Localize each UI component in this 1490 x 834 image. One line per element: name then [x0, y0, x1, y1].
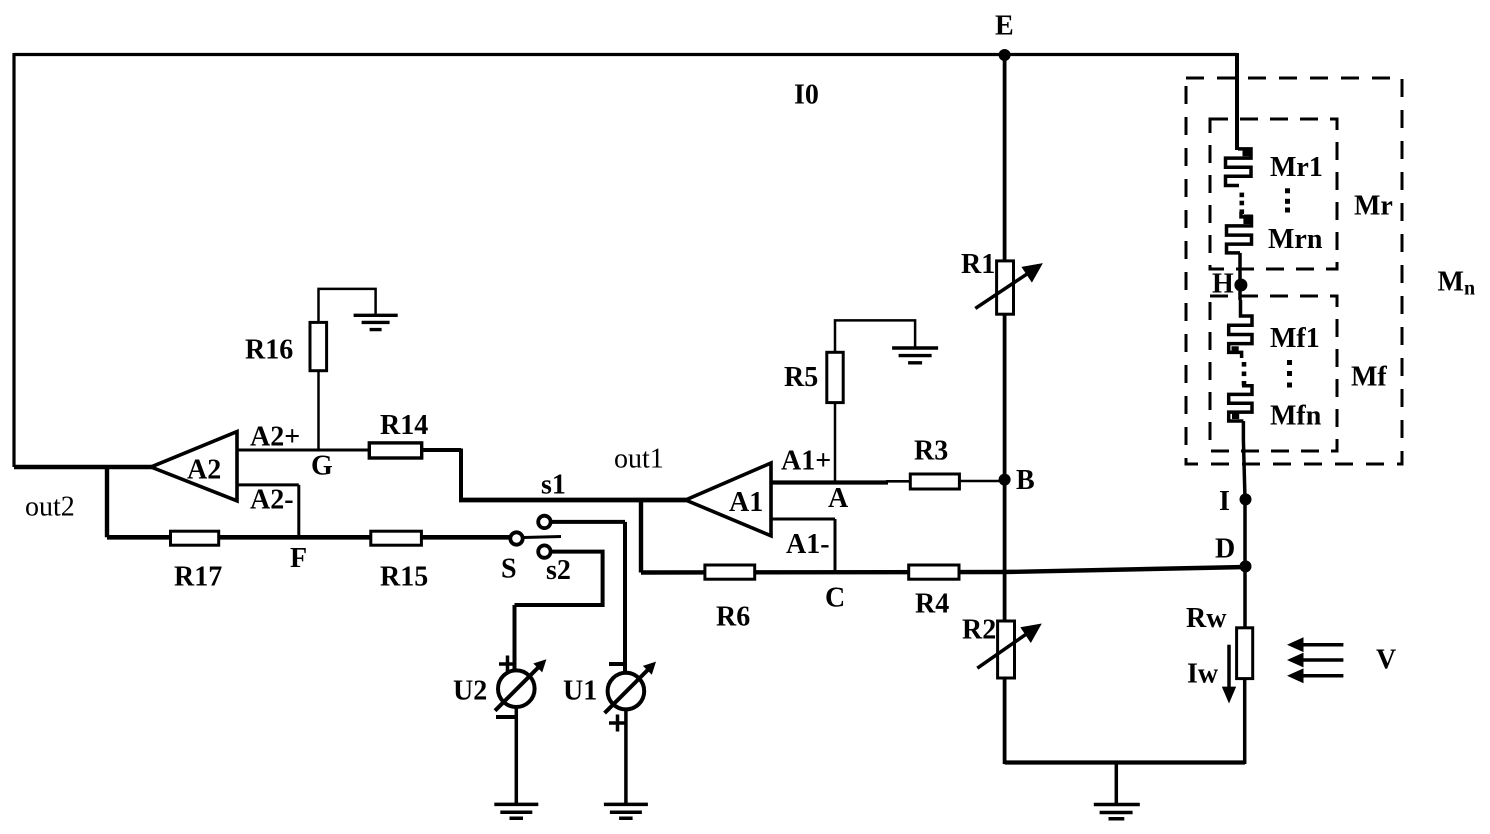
wire A1 output feedback branch down [639, 500, 643, 573]
svg-text:R17: R17 [174, 562, 222, 593]
wire s1 contact to U1 [552, 522, 626, 673]
memristor Mrn [1227, 212, 1323, 255]
resistor R2 (variable) [962, 615, 1042, 679]
svg-text:C: C [825, 583, 845, 614]
dashed box Mf (inner bottom) [1210, 296, 1337, 451]
switch S pole contact [510, 532, 522, 544]
current arrow Iw [1187, 645, 1236, 704]
resistor R16 [245, 322, 327, 370]
wire A2 inverting input stub down to node F [237, 485, 299, 537]
wire Rw bottom lead to bottom rail [1243, 679, 1245, 764]
svg-text:Mrn: Mrn [1268, 224, 1323, 255]
wire E vertical rail down to R1 [1003, 55, 1007, 261]
svg-text:n: n [1464, 278, 1475, 300]
node E [995, 11, 1014, 62]
wire left rail down the left edge [12, 53, 15, 467]
ground (R16) [354, 315, 398, 329]
svg-text:A1-: A1- [786, 529, 830, 560]
svg-text:A1: A1 [729, 487, 763, 518]
svg-text:R2: R2 [962, 615, 996, 646]
svg-text:R16: R16 [245, 335, 293, 366]
dashed box Mr (inner top) [1210, 119, 1337, 269]
wire R14 right lead, corner down to s1 bus [422, 449, 461, 501]
resistor R5 [784, 352, 843, 402]
svg-text:B: B [1016, 465, 1035, 496]
ground (bottom rail) [1094, 763, 1140, 819]
node I [1219, 486, 1252, 517]
wire A1 noninverting input to R3 (node A on it) [771, 481, 911, 482]
dots between Mr1 and Mrn (chain) [1240, 193, 1245, 214]
label Mn [1438, 267, 1476, 300]
svg-text:Mr: Mr [1354, 191, 1393, 222]
resistor R4 [909, 565, 959, 620]
wire A2 noninverting input to R14 (node G on it) [237, 449, 370, 452]
dots between Mf1 and Mfn (chain) [1242, 362, 1247, 386]
label + (U1 bottom) [609, 715, 626, 732]
svg-text:s1: s1 [541, 470, 566, 501]
wire A1 inverting input stub down to node C [771, 519, 835, 572]
svg-text:I: I [1219, 486, 1230, 517]
wire lower line junction down to R2 [1003, 572, 1007, 621]
ground (U2) [494, 804, 538, 818]
svg-text:Mf: Mf [1351, 362, 1387, 393]
svg-text:R1: R1 [961, 249, 995, 280]
svg-text:H: H [1212, 269, 1234, 300]
source U2 (variable) [453, 659, 546, 711]
resistor R17 [171, 531, 223, 592]
svg-text:out2: out2 [25, 492, 75, 523]
svg-text:Iw: Iw [1187, 659, 1219, 690]
svg-text:G: G [311, 451, 333, 482]
svg-text:I0: I0 [794, 80, 819, 111]
dots under label Mf1 [1287, 360, 1292, 388]
svg-text:R15: R15 [380, 562, 428, 593]
dashed box Mn (outer) [1186, 78, 1402, 464]
svg-text:A1+: A1+ [781, 446, 831, 477]
svg-text:R4: R4 [915, 589, 949, 620]
label + (U2 top) [499, 656, 516, 673]
wire R5 bottom lead down to node A [834, 403, 837, 481]
wire R17 / R15 line to switch pole [107, 535, 510, 540]
memristor Mr1 [1226, 148, 1323, 186]
switch throw contact s1 [538, 516, 550, 528]
resistor R3 [910, 436, 959, 490]
svg-text:Mf1: Mf1 [1270, 323, 1320, 354]
wire R2 bottom lead to bottom rail [1003, 678, 1007, 764]
svg-text:E: E [995, 11, 1014, 42]
wire bottom rail [1005, 760, 1245, 764]
svg-text:V: V [1376, 645, 1396, 676]
svg-text:R6: R6 [716, 602, 750, 633]
node D [1215, 534, 1252, 573]
svg-text:M: M [1438, 267, 1464, 298]
light arrows V [1287, 637, 1396, 683]
resistor R15 [371, 531, 428, 592]
switch S blade [524, 537, 562, 538]
wire R5 top lead to ground [835, 320, 915, 352]
svg-text:R14: R14 [380, 410, 428, 441]
wire U1 bottom lead to ground [624, 709, 628, 804]
svg-text:out1: out1 [614, 444, 664, 475]
wire from top rail down into Mr box [1235, 53, 1239, 150]
memristor Mfn [1229, 386, 1322, 432]
svg-text:Mr1: Mr1 [1270, 152, 1323, 183]
svg-text:A2-: A2- [250, 485, 294, 516]
wire R1 bottom to B and on to lower line [1003, 314, 1007, 572]
wire out2 feedback drop to R17 line [105, 467, 109, 537]
resistor R1 (variable) [961, 249, 1043, 314]
wire lower line from feedback branch through R6, C, R4 to node D [641, 567, 1246, 573]
ground (R5) [892, 348, 938, 363]
svg-text:Rw: Rw [1186, 603, 1227, 634]
svg-text:A: A [828, 483, 849, 514]
memristor Mf1 [1229, 300, 1320, 358]
wire s2 contact to U2 [515, 552, 603, 671]
svg-text:S: S [501, 554, 517, 585]
resistor R14 [369, 410, 428, 458]
wire U2 bottom lead to ground [515, 707, 519, 804]
svg-text:U2: U2 [453, 676, 487, 707]
node B [999, 465, 1035, 496]
svg-text:Mfn: Mfn [1270, 401, 1322, 432]
wire s1 bus to A1 apex [459, 498, 688, 503]
svg-text:A2: A2 [187, 455, 221, 486]
svg-text:D: D [1215, 534, 1235, 565]
resistor R6 [705, 565, 755, 633]
wire D down to Rw [1243, 567, 1247, 629]
svg-text:R3: R3 [914, 436, 948, 467]
node H [1212, 253, 1247, 300]
wire out2 bus from left rail to A2 apex [14, 465, 153, 469]
wire Mfn exit down through node I to node D [1243, 421, 1245, 567]
svg-text:s2: s2 [546, 555, 571, 586]
svg-text:F: F [290, 543, 307, 574]
dots under label Mr1 [1285, 188, 1290, 212]
op-amp A1 [686, 463, 771, 536]
svg-text:A2+: A2+ [250, 422, 300, 453]
wire R3 right lead to node B [959, 480, 1006, 483]
ground (U1) [604, 804, 648, 818]
label - (U2 bottom) [496, 715, 516, 719]
resistor Rw [1186, 603, 1253, 679]
wire R16 top lead to ground [319, 289, 376, 323]
source U1 (variable) [563, 662, 656, 714]
label - (U1 top) [609, 662, 626, 666]
switch throw contact s2 [538, 545, 550, 557]
svg-text:R5: R5 [784, 362, 818, 393]
op-amp A2 [151, 432, 237, 501]
wire top rail from top-left corner to node E and onward [14, 53, 1237, 56]
wire R16 bottom lead down to node G [317, 371, 320, 450]
svg-text:U1: U1 [563, 676, 597, 707]
